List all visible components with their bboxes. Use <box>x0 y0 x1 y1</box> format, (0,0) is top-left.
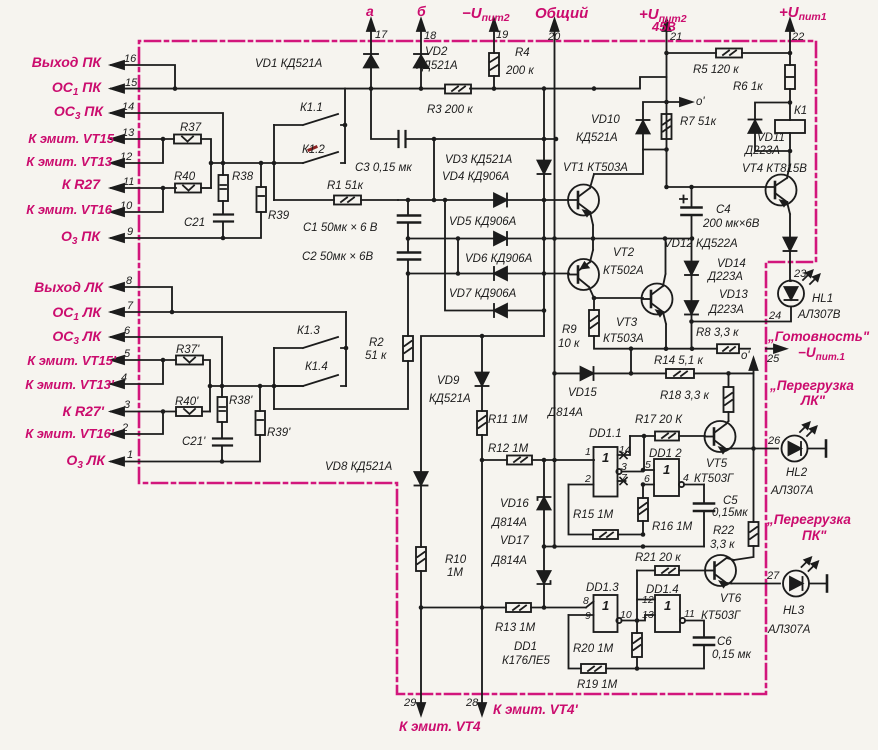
svg-text:R20 1М: R20 1М <box>573 643 614 655</box>
svg-text:21: 21 <box>669 31 682 43</box>
diode VD13 <box>685 301 698 349</box>
svg-text:Д223А: Д223А <box>707 304 744 316</box>
svg-text:20: 20 <box>547 31 561 43</box>
svg-text:DD1 2: DD1 2 <box>649 448 682 460</box>
node o' arrow (overload to o') <box>750 358 758 373</box>
svg-text:11: 11 <box>684 608 695 620</box>
svg-text:28: 28 <box>465 697 479 709</box>
svg-text:VD2: VD2 <box>425 46 448 58</box>
wire row VT3 base (y298) <box>592 296 643 301</box>
diode VD1 <box>364 54 378 89</box>
diode VD4 <box>494 194 507 207</box>
wire row DD1.1 input1 (y460) + resistor R12 <box>482 456 594 465</box>
pin 5 К эмит. VT15' <box>111 356 176 364</box>
diode VD8 <box>415 472 428 547</box>
relay contact K1.2 <box>303 147 345 163</box>
board outline (dash-dot magenta border) <box>139 41 816 694</box>
svg-text:13: 13 <box>122 127 135 139</box>
diode VD2 <box>414 54 428 89</box>
logic gate DD1.3 <box>569 595 638 632</box>
LED HL2 <box>782 423 827 462</box>
svg-text:С2 50мк × 6В: С2 50мк × 6В <box>302 251 374 263</box>
diode VD9 <box>476 336 489 411</box>
svg-text:R37: R37 <box>180 122 202 134</box>
transistor VT4 <box>667 151 797 237</box>
zener VD16 <box>538 460 551 547</box>
svg-text:1: 1 <box>602 450 609 465</box>
svg-text:С21': С21' <box>182 436 206 448</box>
resistor R17 <box>630 432 705 471</box>
svg-text:10: 10 <box>120 200 133 212</box>
wire row R13 (y607.5) <box>421 602 594 608</box>
svg-text:R5 120 к: R5 120 к <box>693 64 739 76</box>
pin 7 ОС1 ЛК <box>111 308 346 316</box>
wire row VT1 base (y200) <box>398 198 578 203</box>
svg-text:25: 25 <box>766 353 780 365</box>
svg-text:К R27: К R27 <box>62 176 101 192</box>
svg-text:16: 16 <box>124 53 137 65</box>
resistor R37 <box>174 135 211 189</box>
svg-text:VD13: VD13 <box>719 289 748 301</box>
svg-text:R21 20 к: R21 20 к <box>635 552 681 564</box>
resistor R10 <box>416 547 426 610</box>
resistor R2 <box>403 274 413 362</box>
svg-text:4: 4 <box>683 472 689 484</box>
svg-text:VD6 КД906А: VD6 КД906А <box>465 253 533 265</box>
svg-text:8: 8 <box>583 595 589 607</box>
svg-text:1: 1 <box>127 449 133 461</box>
diode VD10 <box>637 102 667 150</box>
svg-text:Выход ЛК: Выход ЛК <box>34 279 104 295</box>
svg-text:С5: С5 <box>723 495 738 507</box>
svg-text:VD8 КД521А: VD8 КД521А <box>325 461 393 473</box>
svg-text:КД521А: КД521А <box>416 60 458 72</box>
resistor R40' <box>176 407 210 416</box>
resistor R37' <box>176 356 210 412</box>
svg-text:К эмит. VT13: К эмит. VT13 <box>26 154 112 169</box>
capacitor C2 <box>398 239 420 276</box>
svg-text:VD15: VD15 <box>568 387 597 399</box>
svg-text:VD3 КД521А: VD3 КД521А <box>445 154 513 166</box>
zener VD17 <box>538 547 551 610</box>
svg-text:5: 5 <box>645 459 651 471</box>
svg-text:1: 1 <box>585 446 591 458</box>
diode VD14 <box>685 239 698 302</box>
svg-text:DD1.1: DD1.1 <box>589 428 622 440</box>
wire VD5row to VD6row (x458) <box>456 239 461 276</box>
pin 11 К R27 <box>111 184 176 192</box>
svg-text:о': о' <box>741 350 750 362</box>
svg-text:200 мк×6В: 200 мк×6В <box>702 218 760 230</box>
svg-text:КТ503А: КТ503А <box>603 333 644 345</box>
resistor R11 <box>477 411 487 462</box>
resistor R40 <box>175 184 211 193</box>
pin 15 ОС1 ПК <box>111 85 345 93</box>
wire link rows 348-373 (x631) <box>629 346 634 373</box>
svg-text:К эмит. VT4: К эмит. VT4 <box>399 719 481 734</box>
svg-text:а: а <box>366 3 374 19</box>
svg-text:К1.2: К1.2 <box>302 144 325 156</box>
svg-text:2: 2 <box>121 422 128 434</box>
svg-text:R10: R10 <box>445 554 467 566</box>
svg-text:HL1: HL1 <box>812 293 833 305</box>
svg-text:4: 4 <box>121 372 127 384</box>
resistor R3 <box>445 85 471 94</box>
svg-text:R12 1М: R12 1М <box>488 443 529 455</box>
svg-text:R3 200 к: R3 200 к <box>427 104 473 116</box>
wire node C3 row (y139) <box>371 89 558 142</box>
svg-text:27: 27 <box>766 570 780 582</box>
svg-text:VD11: VD11 <box>757 132 785 144</box>
svg-text:1: 1 <box>602 598 609 613</box>
svg-text:R17 20 К: R17 20 К <box>635 414 683 426</box>
svg-text:К эмит. VT15: К эмит. VT15 <box>28 131 114 146</box>
svg-text:R40': R40' <box>175 396 199 408</box>
svg-text:„Перегрузка: „Перегрузка <box>766 512 851 527</box>
svg-text:0,15мк: 0,15мк <box>712 507 748 519</box>
pin 10 К эмит. VT16 <box>111 188 163 216</box>
capacitor C6 <box>637 638 714 669</box>
diode VD6 (points left) <box>494 267 507 280</box>
svg-text:R8 3,3 к: R8 3,3 к <box>696 327 739 339</box>
svg-text:11: 11 <box>123 176 134 188</box>
resistor R14 <box>666 369 694 378</box>
svg-text:R22: R22 <box>713 525 735 537</box>
wire C3row to R1 row <box>432 139 437 202</box>
svg-text:VD10: VD10 <box>591 114 620 126</box>
resistor R21 <box>637 566 706 600</box>
resistor R16 <box>638 470 648 535</box>
svg-text:9: 9 <box>585 610 591 622</box>
svg-text:1: 1 <box>663 462 670 477</box>
terminal 20 (Общий) <box>551 19 559 547</box>
svg-text:14: 14 <box>619 444 631 456</box>
svg-text:R19 1М: R19 1М <box>577 679 618 691</box>
pin 2 К эмит. VT16' <box>111 412 163 439</box>
terminal 17 (a) <box>367 19 375 67</box>
svg-text:R2: R2 <box>369 337 384 349</box>
svg-text:R6 1к: R6 1к <box>733 81 763 93</box>
svg-text:R7 51к: R7 51к <box>680 116 717 128</box>
transistor VT1 <box>568 150 643 239</box>
svg-text:7: 7 <box>127 300 134 312</box>
diode VD15 <box>581 367 594 380</box>
svg-text:26: 26 <box>767 435 781 447</box>
svg-text:К R27': К R27' <box>62 403 104 419</box>
pin 9 О3 ПК <box>111 212 261 242</box>
resistor R18 <box>724 373 734 421</box>
svg-text:12: 12 <box>642 594 654 606</box>
svg-text:К эмит. VT16: К эмит. VT16 <box>26 202 112 217</box>
terminal 28 (К эмит. VT4') <box>478 608 486 716</box>
wire VT6 emitter row (y583.5) <box>732 583 781 585</box>
svg-text:VD5 КД906А: VD5 КД906А <box>449 216 517 228</box>
resistor R39 <box>257 163 267 212</box>
svg-text:17: 17 <box>375 29 388 41</box>
node row K1.4 (junction row y386) <box>208 384 303 389</box>
pin 12 К эмит. VT13 <box>111 139 163 167</box>
wire row 348.7 + resistor R8 <box>664 344 750 353</box>
svg-text:VT2: VT2 <box>613 247 635 259</box>
svg-text:6: 6 <box>644 473 650 485</box>
wire row VD7 (y310.5) <box>445 200 546 313</box>
resistor R39' <box>256 386 266 435</box>
svg-text:15: 15 <box>125 77 138 89</box>
transistor VT6 <box>705 555 736 587</box>
wire row -Uпит2 (y88.6) <box>345 77 667 91</box>
svg-text:R15 1М: R15 1М <box>573 509 614 521</box>
svg-text:12: 12 <box>120 151 132 163</box>
svg-text:R4: R4 <box>515 47 530 59</box>
wire row y546.5 <box>542 544 704 549</box>
svg-text:DD1: DD1 <box>514 641 537 653</box>
transistor VT2 <box>568 239 599 299</box>
resistor R38 <box>219 163 229 214</box>
relay contact K1.3 <box>274 312 348 409</box>
wire row x421 net (y336) <box>421 334 544 472</box>
svg-text:С21: С21 <box>184 217 205 229</box>
diode VD7 (points left) <box>494 304 507 317</box>
node row K1.2 (junction row y163) <box>209 161 303 166</box>
capacitor C21' <box>213 439 232 462</box>
svg-text:С1 50мк × 6 В: С1 50мк × 6 В <box>303 222 378 234</box>
svg-text:8: 8 <box>126 275 133 287</box>
svg-text:АЛ307А: АЛ307А <box>770 485 814 497</box>
terminal 22 (+Uпит1) <box>786 19 794 53</box>
svg-text:R14 5,1 к: R14 5,1 к <box>654 355 703 367</box>
svg-text:22: 22 <box>791 31 804 43</box>
relay coil K1 <box>775 120 805 153</box>
svg-text:КД521А: КД521А <box>576 132 618 144</box>
svg-text:КТ503Г: КТ503Г <box>694 473 734 485</box>
svg-text:VD14: VD14 <box>717 258 746 270</box>
terminal 29 (К эмит. VT4) <box>417 608 425 716</box>
relay contact K1.1 <box>274 89 347 200</box>
LED HL1 <box>692 271 820 322</box>
svg-text:R37': R37' <box>176 344 200 356</box>
svg-text:„Перегрузка: „Перегрузка <box>769 378 854 393</box>
wire x482 down to terminal 28 <box>480 460 485 610</box>
svg-text:R16 1М: R16 1М <box>652 521 693 533</box>
terminal 19 (-Uпит2) <box>490 19 498 53</box>
svg-text:VD16: VD16 <box>500 498 529 510</box>
svg-text:ЛК": ЛК" <box>800 393 826 408</box>
svg-text:HL2: HL2 <box>786 467 808 479</box>
resistor R15 loop <box>569 485 646 540</box>
svg-text:HL3: HL3 <box>783 605 805 617</box>
svg-text:Д814А: Д814А <box>490 517 527 529</box>
svg-text:VT1 КТ503А: VT1 КТ503А <box>563 162 628 174</box>
resistor R22 <box>734 522 759 560</box>
logic gate DD1.2 <box>641 459 704 496</box>
wire row y373 (overload net) <box>555 371 754 376</box>
svg-text:6: 6 <box>124 325 131 337</box>
svg-text:10: 10 <box>620 609 632 621</box>
resistor R38' <box>218 386 228 438</box>
terminal 18 (б) <box>417 19 425 67</box>
svg-text:VD4 КД906А: VD4 КД906А <box>442 171 510 183</box>
svg-text:200 к: 200 к <box>505 65 534 77</box>
svg-text:3,3 к: 3,3 к <box>710 539 735 551</box>
svg-text:VT3: VT3 <box>616 317 638 329</box>
svg-text:б: б <box>417 3 426 19</box>
pin 8 Выход ЛК <box>111 283 172 312</box>
pin 16 Выход ПК <box>111 61 175 89</box>
capacitor C1 <box>398 198 420 241</box>
capacitor C5 <box>694 485 714 547</box>
svg-text:14: 14 <box>122 101 134 113</box>
svg-text:0,15 мк: 0,15 мк <box>712 649 751 661</box>
resistor R20 loop <box>569 615 640 673</box>
pin 13 К эмит. VT15 <box>111 135 174 143</box>
svg-text:Выход ПК: Выход ПК <box>32 54 103 70</box>
svg-text:Д223А: Д223А <box>706 271 743 283</box>
diode VD12 <box>784 238 797 282</box>
pin 3 К R27' <box>111 408 176 416</box>
svg-text:1М: 1М <box>447 567 463 579</box>
wire row VD5 (y238.5) <box>408 236 694 241</box>
svg-text:АЛ307В: АЛ307В <box>797 309 841 321</box>
svg-text:ПК": ПК" <box>802 528 827 543</box>
svg-text:10 к: 10 к <box>558 338 580 350</box>
svg-text:18: 18 <box>424 30 437 42</box>
svg-text:„Готовность": „Готовность" <box>767 329 870 344</box>
transistor VT3 <box>642 239 673 349</box>
resistor R1 <box>274 196 398 205</box>
svg-text:R11 1М: R11 1М <box>488 414 528 426</box>
diode VD11 <box>749 103 791 152</box>
relay contact K1.4 <box>274 375 346 386</box>
terminal 21 (+Uпит2 45В) <box>663 19 671 189</box>
svg-text:К176ЛЕ5: К176ЛЕ5 <box>502 655 551 667</box>
logic gate DD1.4 <box>637 595 704 637</box>
svg-text:VD1 КД521А: VD1 КД521А <box>255 58 323 70</box>
svg-text:23: 23 <box>793 268 807 280</box>
svg-text:С4: С4 <box>716 204 731 216</box>
svg-text:2: 2 <box>584 473 591 485</box>
svg-text:С3 0,15 мк: С3 0,15 мк <box>355 162 412 174</box>
capacitor C21 <box>214 215 233 239</box>
svg-text:DD1.3: DD1.3 <box>586 582 619 594</box>
capacitor C4 (electrolytic) <box>680 187 702 239</box>
svg-text:R38': R38' <box>229 395 253 407</box>
svg-text:24: 24 <box>768 310 781 322</box>
resistor R6 <box>785 53 795 120</box>
svg-text:1: 1 <box>664 598 671 613</box>
svg-text:С6: С6 <box>717 636 732 648</box>
svg-text:К1: К1 <box>794 105 807 117</box>
resistor R13 <box>506 603 531 612</box>
svg-text:5: 5 <box>124 348 131 360</box>
wire row VD6 (y273.5) <box>408 271 569 276</box>
svg-text:13: 13 <box>642 609 654 621</box>
svg-text:R40: R40 <box>174 171 196 183</box>
resistor R4 <box>489 53 499 89</box>
svg-text:К1.1: К1.1 <box>300 102 323 114</box>
capacitor C3 <box>399 131 406 147</box>
svg-text:9: 9 <box>127 226 133 238</box>
svg-text:R39': R39' <box>267 427 291 439</box>
svg-text:Д814А: Д814А <box>546 407 583 419</box>
svg-text:29: 29 <box>403 697 416 709</box>
svg-text:R18 3,3 к: R18 3,3 к <box>660 390 709 402</box>
svg-text:К эмит. VT15': К эмит. VT15' <box>27 353 117 368</box>
wire row R5 (y53) + resistor R5 <box>667 49 793 58</box>
svg-text:R13 1М: R13 1М <box>495 622 536 634</box>
wire VT5 emitter row (y448.5) <box>731 373 778 522</box>
svg-text:АЛ307А: АЛ307А <box>767 624 811 636</box>
wire K-block to R2 bottom <box>274 361 408 409</box>
diode VD5 <box>494 232 507 245</box>
svg-text:R38: R38 <box>232 171 254 183</box>
resistor R9 <box>589 298 717 349</box>
svg-text:КД521А: КД521А <box>429 393 471 405</box>
svg-text:К1.3: К1.3 <box>297 325 320 337</box>
svg-text:51 к: 51 к <box>365 350 387 362</box>
pin 4 К эмит. VT13' <box>111 360 163 388</box>
svg-text:К эмит. VT4': К эмит. VT4' <box>493 702 578 717</box>
svg-text:3: 3 <box>124 399 131 411</box>
svg-text:Д223А: Д223А <box>743 145 780 157</box>
resistor R20 <box>632 618 642 668</box>
svg-text:К эмит. VT16': К эмит. VT16' <box>25 426 115 441</box>
svg-text:К эмит. VT13': К эмит. VT13' <box>25 377 115 392</box>
svg-text:VD17: VD17 <box>500 535 529 547</box>
LED HL3 <box>783 558 827 597</box>
pin 6 ОС3 ЛК <box>111 333 222 386</box>
pin 1 О3 ЛК <box>111 435 260 466</box>
pin 14 ОС3 ПК <box>111 109 223 163</box>
svg-text:R1 51к: R1 51к <box>327 180 364 192</box>
svg-text:КТ502А: КТ502А <box>603 265 644 277</box>
svg-text:КТ503Г: КТ503Г <box>701 610 741 622</box>
svg-text:Д814А: Д814А <box>490 555 527 567</box>
svg-text:VD9: VD9 <box>437 375 460 387</box>
svg-text:VT5: VT5 <box>706 458 728 470</box>
transistor VT5 <box>705 421 736 453</box>
node 25 arrow (Готовность output) <box>766 345 786 353</box>
svg-text:VD12 КД522А: VD12 КД522А <box>664 238 738 250</box>
svg-text:R39: R39 <box>268 210 290 222</box>
resistor R7 <box>662 114 672 139</box>
svg-text:о': о' <box>696 96 705 108</box>
node o' top arrow <box>667 98 693 106</box>
diode VD3 <box>538 161 551 175</box>
svg-text:19: 19 <box>496 29 508 41</box>
svg-text:VD7 КД906А: VD7 КД906А <box>449 288 517 300</box>
svg-text:Общий: Общий <box>535 5 588 22</box>
svg-text:К1.4: К1.4 <box>305 361 328 373</box>
svg-text:R9: R9 <box>562 324 577 336</box>
svg-text:VT6: VT6 <box>720 593 742 605</box>
node spine x544 upper <box>543 89 545 336</box>
svg-text:VT4 КТ815В: VT4 КТ815В <box>742 163 807 175</box>
logic gate DD1.1 <box>569 436 644 497</box>
